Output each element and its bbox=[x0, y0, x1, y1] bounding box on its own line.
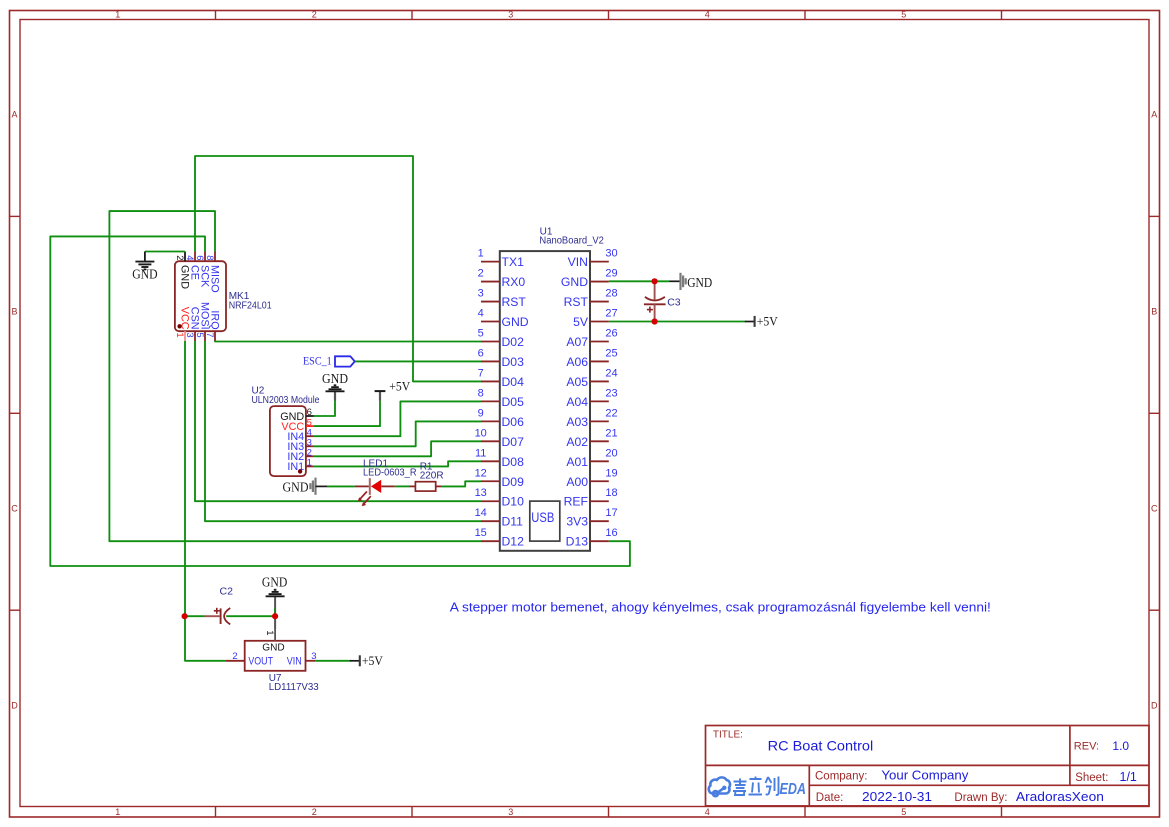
U2 pin1 marker dot bbox=[298, 469, 302, 473]
svg-text:4: 4 bbox=[184, 255, 195, 260]
svg-text:2: 2 bbox=[174, 255, 185, 260]
ground symbol GND (U2) bbox=[334, 391, 336, 400]
svg-text:NanoBoard_V2: NanoBoard_V2 bbox=[539, 236, 604, 247]
svg-text:7: 7 bbox=[204, 332, 215, 337]
wire net IRQ: MK1 pin7 to U1 D02 bbox=[215, 340, 481, 343]
MK1 pin 1 VCC (bottom stub) bbox=[184, 331, 186, 341]
svg-text:LED-0603_R: LED-0603_R bbox=[363, 468, 417, 479]
svg-text:14: 14 bbox=[475, 507, 487, 519]
svg-text:6: 6 bbox=[194, 255, 205, 260]
svg-text:C3: C3 bbox=[667, 296, 681, 308]
LED1 emission arrows bbox=[358, 492, 371, 507]
regulator U7 LD1117V33 body bbox=[245, 641, 306, 671]
svg-text:ULN2003 Module: ULN2003 Module bbox=[252, 395, 320, 406]
svg-text:1: 1 bbox=[115, 807, 120, 817]
svg-text:D07: D07 bbox=[502, 435, 525, 449]
svg-text:GND: GND bbox=[561, 275, 588, 289]
module U2 ULN2003 body bbox=[270, 406, 306, 476]
svg-text:A: A bbox=[1151, 110, 1157, 120]
svg-text:GND: GND bbox=[502, 315, 529, 329]
wire net IN2: U2 to U1 D07 bbox=[314, 441, 481, 456]
wire U7 VIN to +5V flag bbox=[316, 660, 351, 662]
svg-text:220R: 220R bbox=[420, 470, 444, 481]
svg-text:28: 28 bbox=[605, 288, 617, 300]
svg-text:9: 9 bbox=[478, 407, 484, 419]
U1 pin 30 VIN bbox=[590, 261, 609, 263]
wire LED1 cathode to GND bbox=[327, 485, 355, 487]
wire net VCC: MK1 pin1 down to C2/U7 bbox=[185, 341, 226, 661]
svg-text:USB: USB bbox=[531, 510, 554, 525]
U7 pin 2 VOUT bbox=[226, 660, 245, 662]
svg-text:A03: A03 bbox=[566, 415, 588, 429]
svg-text:16: 16 bbox=[605, 527, 617, 539]
junction node VCC / C2 bbox=[182, 613, 188, 619]
MK1 pin 6 SCK (top stub) bbox=[204, 252, 206, 262]
wire net IN1: U2 to U1 D08 bbox=[314, 461, 481, 466]
svg-text:3: 3 bbox=[508, 10, 513, 20]
U1 pin 3 RST bbox=[481, 301, 500, 303]
LED LED1 bbox=[355, 485, 369, 487]
svg-text:REV:: REV: bbox=[1074, 741, 1099, 753]
wire net CE: MK1 pin4 to U1 D04 bbox=[195, 156, 481, 381]
U1 pin 8 D05 bbox=[481, 400, 500, 402]
svg-text:23: 23 bbox=[605, 387, 617, 399]
U2 pin 2 IN2 bbox=[306, 455, 314, 457]
svg-text:7: 7 bbox=[478, 367, 484, 379]
U1 pin 25 A06 bbox=[590, 360, 609, 362]
svg-text:D05: D05 bbox=[502, 395, 525, 409]
svg-text:RST: RST bbox=[564, 295, 589, 309]
svg-text:+5V: +5V bbox=[389, 380, 410, 394]
C3 polarity plus bbox=[647, 309, 653, 311]
wire net CSN: MK1 pin3 to U1 D10 bbox=[195, 341, 481, 501]
svg-text:2: 2 bbox=[478, 268, 484, 280]
wire net IN3: U2 to U1 D06 bbox=[314, 421, 481, 446]
U1 pin 18 REF bbox=[590, 500, 609, 502]
svg-text:30: 30 bbox=[605, 248, 617, 260]
junction node C2 / GND / U7 pin1 bbox=[272, 613, 278, 619]
svg-text:4: 4 bbox=[705, 807, 710, 817]
svg-text:8: 8 bbox=[204, 255, 215, 260]
svg-text:D04: D04 bbox=[502, 375, 525, 389]
capacitor C2 bbox=[205, 615, 220, 617]
svg-text:LD1117V33: LD1117V33 bbox=[269, 682, 319, 693]
U1 pin 29 GND bbox=[590, 281, 609, 283]
svg-text:Your Company: Your Company bbox=[881, 768, 969, 782]
svg-text:A05: A05 bbox=[566, 375, 588, 389]
U1 pin 6 D03 bbox=[481, 360, 500, 362]
svg-text:29: 29 bbox=[605, 268, 617, 280]
svg-text:4: 4 bbox=[478, 308, 484, 320]
svg-text:D12: D12 bbox=[502, 535, 525, 549]
C2 polarity plus bbox=[214, 610, 220, 612]
MK1 pin1 marker dot bbox=[177, 324, 181, 328]
svg-text:Sheet:: Sheet: bbox=[1075, 772, 1108, 784]
svg-text:+5V: +5V bbox=[362, 654, 383, 668]
U1 pin 4 GND bbox=[481, 321, 500, 323]
ground symbol GND (C2/U7) bbox=[274, 597, 276, 616]
svg-text:REF: REF bbox=[564, 495, 588, 509]
MK1 pin 7 IRQ (bottom stub) bbox=[214, 331, 216, 341]
JLC EDA logo cloud bbox=[709, 777, 730, 796]
svg-text:RX0: RX0 bbox=[502, 275, 526, 289]
U1 pin 20 A01 bbox=[590, 460, 609, 462]
svg-text:25: 25 bbox=[605, 347, 617, 359]
svg-text:13: 13 bbox=[475, 487, 487, 499]
U1 pin 16 D13 bbox=[590, 540, 609, 542]
wire net IN4: U2 to U1 D05 bbox=[314, 401, 481, 436]
wire U2 GND pin to ground bbox=[314, 401, 335, 417]
wire U1 pin27 5V to +5V flag bbox=[609, 321, 746, 323]
svg-text:TX1: TX1 bbox=[502, 255, 525, 269]
U7 pin 3 VIN bbox=[306, 660, 316, 662]
svg-text:12: 12 bbox=[475, 467, 487, 479]
junction node at U1 pin27 5V / C3 bbox=[652, 318, 658, 324]
power flag +5V (U1 pin27) bbox=[745, 321, 754, 323]
svg-text:TITLE:: TITLE: bbox=[713, 729, 743, 740]
wire net MISO: MK1 pin8 to U1 D12 bbox=[109, 211, 481, 541]
svg-text:2: 2 bbox=[312, 10, 317, 20]
svg-text:3: 3 bbox=[508, 807, 513, 817]
svg-text:D: D bbox=[11, 701, 18, 711]
MK1 pin 8 MISO (top stub) bbox=[214, 252, 216, 262]
svg-text:A00: A00 bbox=[566, 475, 588, 489]
MK1 pin 5 MOSI (bottom stub) bbox=[204, 331, 206, 341]
svg-text:GND: GND bbox=[262, 575, 288, 590]
wire net MOSI: MK1 pin5 to U1 D11 bbox=[205, 341, 481, 521]
svg-text:GND: GND bbox=[283, 481, 309, 496]
U2 pin 4 IN4 bbox=[306, 435, 314, 437]
U1 pin 21 A02 bbox=[590, 440, 609, 442]
svg-text:D06: D06 bbox=[502, 415, 525, 429]
wire MK1 GND pin to ground bbox=[145, 251, 185, 253]
svg-text:D02: D02 bbox=[502, 335, 525, 349]
svg-text:MISO: MISO bbox=[208, 265, 220, 293]
U2 pin 6 GND bbox=[306, 415, 314, 417]
svg-text:Date:: Date: bbox=[816, 792, 844, 804]
U1 pin 28 RST bbox=[590, 301, 609, 303]
svg-text:22: 22 bbox=[605, 407, 617, 419]
svg-text:VIN: VIN bbox=[568, 255, 588, 269]
svg-text:8: 8 bbox=[478, 387, 484, 399]
U1 pin 2 RX0 bbox=[481, 281, 500, 283]
svg-text:+5V: +5V bbox=[757, 314, 778, 328]
svg-text:5V: 5V bbox=[573, 315, 589, 329]
svg-text:19: 19 bbox=[605, 467, 617, 479]
op-amp/IC U1 NanoBoard_V2 body bbox=[500, 251, 590, 551]
svg-text:20: 20 bbox=[605, 447, 617, 459]
svg-text:1: 1 bbox=[174, 332, 185, 337]
U1 pin 22 A03 bbox=[590, 420, 609, 422]
svg-text:3: 3 bbox=[478, 288, 484, 300]
svg-text:1: 1 bbox=[307, 458, 312, 469]
U1 pin 17 3V3 bbox=[590, 520, 609, 522]
svg-text:2: 2 bbox=[312, 807, 317, 817]
svg-text:A06: A06 bbox=[566, 355, 588, 369]
svg-text:21: 21 bbox=[605, 427, 617, 439]
svg-text:27: 27 bbox=[605, 308, 617, 320]
svg-text:5: 5 bbox=[901, 10, 906, 20]
svg-text:Drawn By:: Drawn By: bbox=[954, 792, 1007, 804]
svg-text:NRF24L01: NRF24L01 bbox=[229, 300, 272, 311]
svg-text:C: C bbox=[1151, 504, 1158, 514]
U2 pin 5 VCC bbox=[306, 425, 314, 427]
U1 pin 12 D09 bbox=[481, 480, 500, 482]
svg-text:26: 26 bbox=[605, 327, 617, 339]
svg-text:1: 1 bbox=[478, 248, 484, 260]
U1 pin 26 A07 bbox=[590, 340, 609, 342]
svg-text:1: 1 bbox=[115, 10, 120, 20]
U1 USB connector box bbox=[530, 501, 560, 541]
svg-text:A04: A04 bbox=[566, 395, 588, 409]
svg-text:2: 2 bbox=[232, 651, 237, 662]
svg-text:5: 5 bbox=[194, 332, 205, 337]
resistor R1 bbox=[410, 485, 416, 487]
ground flag GND (U1 pin29) bbox=[669, 280, 680, 282]
U1 pin 15 D12 bbox=[481, 540, 500, 542]
title block bbox=[706, 726, 1150, 806]
svg-text:D08: D08 bbox=[502, 455, 525, 469]
svg-text:Company:: Company: bbox=[815, 770, 867, 782]
power flag +5V (U2) bbox=[379, 391, 381, 401]
svg-text:5: 5 bbox=[478, 327, 484, 339]
svg-text:GND: GND bbox=[687, 276, 712, 291]
junction node at U1 pin29 / C3 bbox=[652, 278, 658, 284]
U7 pin 1 GND (top stub) bbox=[274, 629, 276, 641]
svg-text:A07: A07 bbox=[566, 335, 588, 349]
svg-text:1/1: 1/1 bbox=[1120, 770, 1137, 784]
svg-text:RC Boat Control: RC Boat Control bbox=[768, 738, 874, 754]
U1 pin 7 D04 bbox=[481, 380, 500, 382]
svg-text:D10: D10 bbox=[502, 495, 525, 509]
svg-text:C2: C2 bbox=[220, 585, 234, 597]
wire R1 to U1 D09 bbox=[441, 481, 481, 486]
JLC EDA logo text bbox=[733, 777, 779, 796]
svg-text:VOUT: VOUT bbox=[248, 656, 273, 668]
U1 pin 19 A00 bbox=[590, 480, 609, 482]
svg-text:D03: D03 bbox=[502, 355, 525, 369]
wire GND junction to U7 pin1 bbox=[274, 616, 276, 629]
svg-text:5: 5 bbox=[901, 807, 906, 817]
svg-text:1.0: 1.0 bbox=[1112, 739, 1129, 753]
svg-text:D13: D13 bbox=[566, 535, 589, 549]
wire net ESC_1 to U1 D03 bbox=[355, 360, 481, 362]
svg-text:ESC_1: ESC_1 bbox=[303, 354, 332, 368]
svg-text:18: 18 bbox=[605, 487, 617, 499]
svg-text:GND: GND bbox=[262, 642, 285, 654]
svg-text:B: B bbox=[11, 307, 17, 317]
svg-text:24: 24 bbox=[605, 367, 617, 379]
svg-text:3V3: 3V3 bbox=[566, 515, 588, 529]
RF module MK1 body bbox=[175, 261, 226, 331]
svg-text:D: D bbox=[1151, 701, 1158, 711]
svg-text:B: B bbox=[1151, 307, 1157, 317]
svg-text:RST: RST bbox=[502, 295, 527, 309]
U1 pin 27 5V bbox=[590, 321, 609, 323]
U2 pin 3 IN3 bbox=[306, 445, 314, 447]
U1 pin 11 D08 bbox=[481, 460, 500, 462]
svg-text:2022-10-31: 2022-10-31 bbox=[862, 790, 932, 804]
svg-text:C: C bbox=[11, 504, 18, 514]
ground symbol GND (MK1) bbox=[144, 252, 146, 262]
svg-text:D09: D09 bbox=[502, 475, 525, 489]
svg-text:GND: GND bbox=[322, 371, 348, 386]
wire U1 pin29 GND to flag bbox=[609, 280, 669, 282]
svg-text:3: 3 bbox=[184, 332, 195, 337]
wire net SCK: MK1 pin6 to U1 D13 bbox=[50, 236, 630, 566]
MK1 pin 3 CSN (bottom stub) bbox=[194, 331, 196, 341]
svg-text:A01: A01 bbox=[566, 455, 588, 469]
U1 pin 5 D02 bbox=[481, 340, 500, 342]
svg-text:15: 15 bbox=[475, 527, 487, 539]
U1 pin 24 A05 bbox=[590, 380, 609, 382]
U2 pin 1 IN1 bbox=[306, 465, 314, 467]
svg-text:A: A bbox=[11, 110, 17, 120]
U1 pin 9 D06 bbox=[481, 420, 500, 422]
U1 pin 14 D11 bbox=[481, 520, 500, 522]
svg-text:1: 1 bbox=[264, 630, 275, 635]
U1 pin 1 TX1 bbox=[481, 261, 500, 263]
svg-text:AradorasXeon: AradorasXeon bbox=[1016, 790, 1104, 804]
svg-text:D11: D11 bbox=[502, 515, 524, 529]
MK1 pin 4 CE (top stub) bbox=[194, 252, 196, 262]
U1 pin 23 A04 bbox=[590, 400, 609, 402]
power flag +5V (U7) bbox=[350, 660, 360, 662]
wire LED1 anode to R1 bbox=[395, 485, 410, 487]
svg-text:6: 6 bbox=[478, 347, 484, 359]
svg-text:GND: GND bbox=[132, 266, 158, 281]
svg-text:EDA: EDA bbox=[780, 781, 807, 798]
capacitor C3 bbox=[654, 281, 656, 300]
svg-text:A stepper motor bemenet, ahogy: A stepper motor bemenet, ahogy kényelmes… bbox=[450, 600, 991, 615]
wire U2 VCC pin to +5V bbox=[314, 401, 380, 426]
svg-text:11: 11 bbox=[475, 447, 486, 459]
MK1 pin 2 GND (top stub) bbox=[184, 252, 186, 262]
svg-text:4: 4 bbox=[705, 10, 710, 20]
wire VCC junction to C2 bbox=[185, 615, 205, 617]
U1 pin 13 D10 bbox=[481, 500, 500, 502]
svg-text:A02: A02 bbox=[566, 435, 588, 449]
svg-text:IRQ: IRQ bbox=[208, 310, 220, 329]
U1 pin 10 D07 bbox=[481, 440, 500, 442]
svg-text:10: 10 bbox=[475, 427, 487, 439]
svg-text:VIN: VIN bbox=[287, 656, 302, 668]
svg-text:17: 17 bbox=[605, 507, 617, 519]
